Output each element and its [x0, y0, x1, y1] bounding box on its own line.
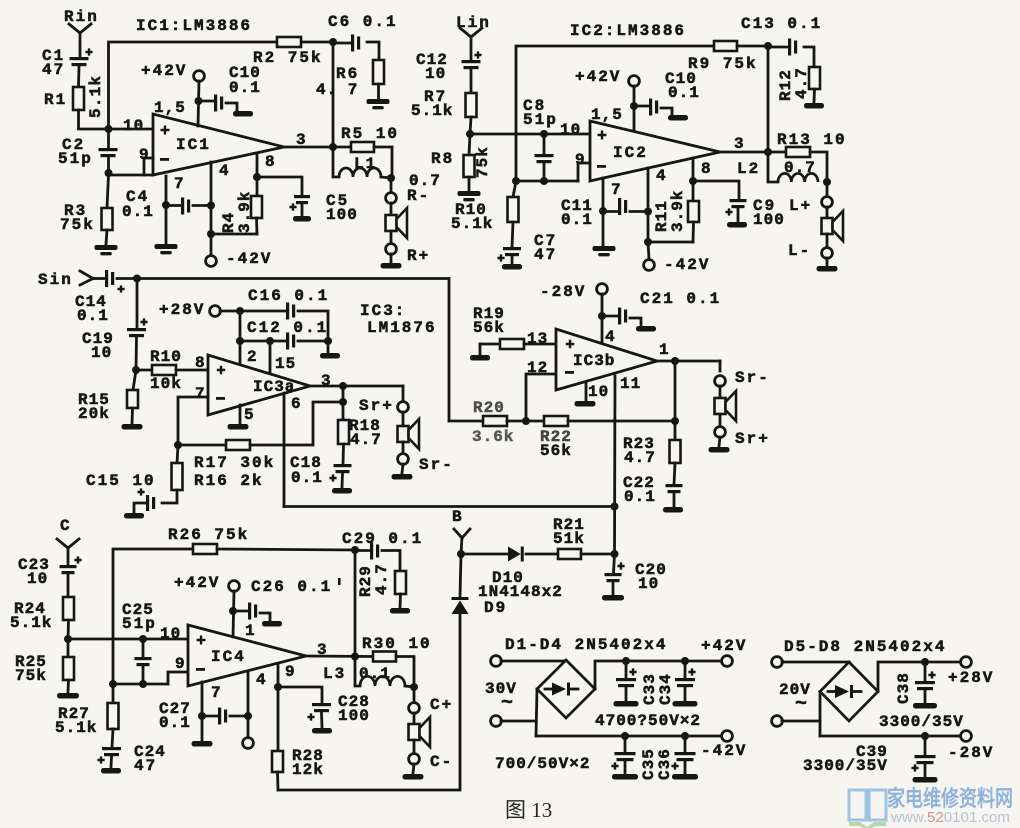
svg-text:C36: C36	[656, 748, 674, 780]
ground C33	[614, 701, 639, 707]
junction C27 right	[244, 712, 252, 720]
junction C11 right	[644, 208, 652, 216]
svg-text:1,5: 1,5	[154, 99, 186, 117]
svg-text:51p: 51p	[523, 111, 558, 129]
svg-text:IC4: IC4	[211, 648, 246, 666]
svg-text:1: 1	[659, 341, 671, 359]
junction C33	[622, 657, 630, 665]
svg-text:R20: R20	[473, 399, 505, 417]
svg-text:C13 0.1: C13 0.1	[741, 15, 822, 33]
wire Sr- to speaker b	[719, 386, 722, 398]
wire R11 bottom row	[648, 241, 693, 244]
capacitor C11	[618, 198, 621, 215]
plus C33	[629, 668, 636, 675]
wire -input row	[109, 174, 154, 177]
terminal IC4 -42V	[243, 738, 254, 749]
capacitor C18 polar	[334, 464, 352, 467]
svg-text:IC3b: IC3b	[573, 352, 615, 370]
wire L3 left leg	[355, 657, 360, 687]
wire C26 ground lead	[260, 613, 270, 620]
wire R19 left lead	[480, 343, 500, 346]
resistor R10 10k	[152, 365, 176, 375]
wire +42V stem to pin1,5	[198, 81, 199, 126]
wire R6 to ground	[377, 84, 380, 98]
resistor R21	[558, 549, 581, 559]
plus C19	[140, 318, 147, 325]
capacitor C15 polar	[146, 495, 149, 511]
wire C23 to R24	[67, 574, 70, 597]
wire R- to speaker	[390, 203, 393, 215]
pin6 vertical to B row	[283, 393, 286, 507]
junction output IC3a	[339, 382, 347, 390]
wire R17 to elbow	[250, 402, 343, 445]
svg-text:5: 5	[244, 406, 256, 424]
junction C25 bottom	[139, 680, 147, 688]
svg-text:4. 7: 4. 7	[316, 81, 358, 99]
wire C8 bottom lead	[543, 163, 546, 181]
capacitor C34 polar	[684, 661, 687, 678]
wire B row	[284, 505, 615, 508]
svg-text:5.1k: 5.1k	[10, 614, 52, 632]
wire C10 IC2 ground lead	[661, 108, 672, 114]
wire R10 to C7	[512, 222, 513, 247]
wire C9 to ground	[737, 208, 740, 221]
capacitor C27	[218, 708, 221, 725]
junction Sin node	[133, 275, 141, 283]
svg-text:75k: 75k	[60, 216, 95, 234]
junction pin8 IC2	[689, 177, 697, 185]
wire R27 to C24	[112, 729, 113, 747]
antenna Lin	[460, 28, 471, 37]
svg-text:IC3:: IC3:	[360, 302, 406, 320]
wire -rail 2	[820, 735, 961, 738]
junction R18 top	[339, 398, 347, 406]
ground C35	[612, 774, 638, 780]
svg-text:47: 47	[134, 757, 157, 775]
svg-text:3: 3	[734, 135, 746, 153]
svg-text:R+: R+	[407, 247, 430, 265]
junction B row right	[611, 503, 619, 511]
wire C11 right lead	[630, 210, 648, 213]
svg-text:R8: R8	[431, 150, 454, 168]
junction C34	[681, 657, 689, 665]
svg-text:-28V: -28V	[540, 283, 586, 301]
wire D10 to R21	[526, 553, 558, 556]
wire bridge right to +rail	[595, 661, 721, 689]
svg-text:4.7: 4.7	[793, 67, 811, 99]
junction node A	[105, 125, 113, 133]
wire C13 left lead	[768, 46, 788, 49]
pin4 vertical IC4	[247, 671, 250, 737]
terminal Sr+ (IC3b)	[715, 427, 726, 438]
wire AC1 bottom	[501, 720, 536, 723]
svg-text:100: 100	[326, 206, 358, 224]
plus C36	[671, 762, 678, 769]
svg-text:8: 8	[265, 153, 277, 171]
capacitor C20 polar	[605, 573, 622, 576]
resistor R26	[193, 544, 217, 554]
ground C12 row	[320, 353, 340, 359]
wire R20 to R22	[507, 420, 544, 423]
wire C10 to ground	[226, 103, 237, 111]
junction output IC4	[351, 653, 359, 661]
plus C20	[617, 562, 624, 569]
svg-text:www.520101.com: www.520101.com	[890, 810, 1010, 826]
svg-text:75k: 75k	[15, 667, 47, 685]
ground C38	[913, 703, 937, 709]
svg-text:R5 10: R5 10	[341, 125, 399, 143]
svg-text:6: 6	[291, 395, 303, 413]
svg-text:C38: C38	[895, 672, 913, 704]
wire speaker to Sr-	[402, 442, 405, 454]
svg-text:5.1k: 5.1k	[451, 215, 493, 233]
junction C38	[921, 658, 929, 666]
ground C20	[602, 595, 624, 601]
wire R3 to ground	[106, 230, 107, 244]
svg-text:0.1: 0.1	[159, 714, 191, 732]
pin9 step wire	[144, 158, 153, 175]
junction pin12 column	[522, 417, 530, 425]
plus sign IC1	[161, 126, 170, 135]
svg-text:C15 10: C15 10	[86, 472, 156, 490]
svg-text:700/50V×2: 700/50V×2	[495, 755, 590, 773]
svg-text:D9: D9	[484, 599, 507, 617]
svg-text:3.6k: 3.6k	[472, 428, 514, 446]
svg-text:4700?50V×2: 4700?50V×2	[595, 712, 701, 730]
speaker L channel	[822, 218, 833, 234]
ground surround b	[709, 447, 730, 453]
wire C12-row	[240, 340, 286, 343]
pin7 stub IC2	[602, 178, 605, 211]
svg-text:L2: L2	[737, 160, 760, 178]
pin4 vertical IC2	[647, 168, 650, 242]
svg-text:C34: C34	[657, 673, 675, 705]
wire C28 to ground	[320, 713, 323, 727]
wire C22 to ground	[673, 494, 676, 506]
svg-text:D5-D8 2N5402x4: D5-D8 2N5402x4	[784, 638, 946, 656]
wire C8 bottom row	[516, 180, 578, 183]
wire IC3a output row	[310, 385, 403, 388]
capacitor C23 polar	[60, 565, 77, 568]
terminal +28V	[210, 306, 221, 317]
svg-text:C+: C+	[430, 696, 453, 714]
wire C24 to ground	[110, 757, 113, 767]
terminal R+	[386, 244, 397, 255]
wire R2 to node C6	[301, 41, 333, 44]
svg-text:3.9k: 3.9k	[236, 191, 254, 233]
op-amp IC2	[590, 121, 720, 181]
svg-text:R9 75k: R9 75k	[688, 55, 758, 73]
svg-text:D1-D4 2N5402x4: D1-D4 2N5402x4	[505, 636, 667, 654]
wire C18 to ground	[341, 473, 344, 487]
op-amp IC4	[188, 625, 306, 686]
svg-text:C29 0.1: C29 0.1	[342, 530, 423, 548]
plus sign IC2	[598, 131, 607, 140]
resistor R8 (Lin)	[464, 155, 475, 177]
wire C12row ground	[327, 341, 330, 352]
wire R12 to ground	[813, 89, 816, 102]
wire output to R23	[674, 361, 677, 440]
svg-text:8: 8	[701, 160, 713, 178]
capacitor C36 polar	[684, 736, 687, 752]
svg-text:~: ~	[795, 693, 809, 716]
svg-text:R17 30k: R17 30k	[194, 454, 275, 472]
svg-text:+28V: +28V	[159, 301, 205, 319]
junction C4 left	[162, 201, 170, 209]
svg-text:1,5: 1,5	[591, 106, 623, 124]
wire L3 to junction	[405, 686, 414, 687]
resistor R25	[63, 657, 74, 680]
wire -42V stem IC1	[210, 234, 213, 255]
wire R30 to corner	[396, 657, 414, 688]
wire bridge2 left leg down	[819, 692, 822, 737]
plus C1	[85, 48, 92, 55]
ground C9	[727, 222, 747, 228]
wire R10 to IC3a pin8	[176, 369, 208, 372]
svg-text:4: 4	[656, 167, 668, 185]
terminal -42V	[722, 731, 733, 742]
junction C27 left	[198, 712, 206, 720]
svg-text:7: 7	[211, 684, 223, 702]
ground C26	[262, 621, 282, 627]
wire R15 chain	[133, 370, 136, 390]
ground R25	[57, 693, 79, 699]
wire C26 row	[233, 610, 248, 613]
ground pin7/C4	[155, 244, 178, 249]
svg-text:L-: L-	[788, 242, 811, 260]
svg-text:10: 10	[638, 575, 659, 593]
terminal AC2 top	[772, 657, 783, 668]
junction IC3a input node	[132, 366, 140, 374]
wire pin2 vertical	[239, 311, 242, 364]
capacitor C21	[618, 308, 621, 325]
wire R16 chain	[177, 445, 178, 463]
junction C35	[621, 732, 629, 740]
terminal -42V IC1	[206, 256, 217, 267]
wire C8 top lead	[543, 134, 546, 154]
resistor R10 5.1k	[508, 197, 519, 222]
wire feedback/R2 row from node A	[109, 42, 278, 129]
plus sign IC3b	[566, 340, 574, 348]
ground R29	[390, 608, 410, 614]
junction pin2	[236, 337, 244, 345]
resistor R1	[73, 87, 84, 110]
pin5 stub IC3a	[239, 405, 242, 423]
wire D9 column upper	[460, 554, 461, 597]
terminal R-	[386, 193, 397, 204]
wire R9 to C13 node	[737, 45, 768, 48]
wire R10(5.1k) chain	[513, 181, 516, 197]
svg-text:8: 8	[195, 354, 207, 372]
junction C29 node	[351, 546, 359, 554]
ground R6	[367, 99, 390, 104]
junction C8 bottom	[540, 177, 548, 185]
resistor R29	[395, 571, 406, 594]
wire IC4 output row	[306, 655, 373, 658]
terminal C+	[409, 703, 420, 714]
junction R17 left	[174, 441, 182, 449]
junction R27 column	[109, 680, 117, 688]
pin8 stub	[256, 153, 259, 177]
svg-text:7: 7	[195, 385, 207, 403]
wire vertical node C6 to output node	[332, 42, 335, 147]
wire Sr+ to speaker	[402, 412, 405, 426]
wire to C+ terminal	[413, 687, 416, 702]
svg-text:10: 10	[560, 121, 581, 139]
input symbol Sin	[80, 271, 93, 279]
svg-text:4.7: 4.7	[624, 449, 656, 467]
svg-text:100: 100	[338, 707, 370, 725]
pin4 vertical to -42V	[210, 162, 213, 234]
wire +42V IC4 stem	[233, 591, 234, 637]
ground R19	[470, 355, 490, 361]
plus C9	[725, 208, 732, 215]
svg-text:12k: 12k	[292, 761, 324, 779]
ground R8	[458, 191, 481, 196]
wire speaker to L-	[826, 234, 829, 248]
speaker surround b	[715, 398, 726, 414]
svg-text:1: 1	[245, 622, 257, 640]
junction L3/R30	[410, 683, 418, 691]
terminal +42V	[722, 656, 733, 667]
wire C11 left lead	[603, 210, 618, 213]
wire speaker to Sr+ b	[719, 414, 722, 427]
wire Sr- to ground	[402, 464, 403, 473]
wire C16 right corner	[298, 311, 328, 341]
svg-text:5.1k: 5.1k	[411, 102, 453, 120]
wire R1 to node A	[79, 110, 109, 129]
junction pin9 IC4	[274, 683, 282, 691]
svg-text:IC1: IC1	[176, 136, 211, 154]
junction C26	[229, 607, 237, 615]
bridge rectifier D5-D8	[820, 662, 878, 721]
resistor R27	[108, 703, 119, 729]
capacitor C1	[70, 57, 89, 60]
junction output IC3b	[671, 357, 679, 365]
ground C28	[312, 728, 332, 734]
wire to R- terminal	[390, 178, 393, 193]
wire C1 to R1	[77, 66, 80, 87]
wire R27 chain	[112, 684, 115, 703]
svg-text:3.9k: 3.9k	[669, 190, 687, 232]
resistor R7	[466, 93, 477, 117]
capacitor C28 polar	[312, 703, 331, 706]
wire R21 to C20 node	[581, 553, 615, 556]
svg-text:9: 9	[285, 663, 297, 681]
wire pin8 to C5	[257, 177, 302, 194]
diode D10	[508, 547, 521, 562]
svg-text:C16 0.1: C16 0.1	[248, 287, 329, 305]
wire IC2 output row	[720, 151, 786, 154]
resistor R13	[786, 147, 810, 157]
svg-text:0.1: 0.1	[668, 84, 700, 102]
svg-text:R2 75k: R2 75k	[253, 49, 323, 67]
wire R7 to node	[470, 117, 471, 134]
wire bridge2 right to +rail	[878, 662, 961, 692]
junction -42V row IC2	[644, 238, 652, 246]
watermark 家电维修资料网 logo	[849, 790, 886, 820]
resistor R2	[277, 37, 301, 47]
wire C21 ground lead	[630, 318, 641, 325]
capacitor C38 polar	[924, 662, 927, 681]
junction C20 node	[611, 550, 619, 558]
svg-text:12: 12	[527, 359, 548, 377]
terminal +42V IC4	[229, 581, 240, 592]
resistor R28	[272, 751, 283, 772]
wire L- to ground	[826, 258, 829, 266]
svg-text:B: B	[452, 508, 464, 526]
ground C7	[502, 264, 522, 270]
svg-text:Sr-: Sr-	[419, 456, 454, 474]
svg-text:0.1: 0.1	[77, 307, 109, 325]
junction L1/R5	[387, 174, 395, 182]
wire R8 chain	[469, 134, 470, 155]
svg-text:Sr+: Sr+	[359, 397, 394, 415]
junction node C6	[329, 38, 337, 46]
svg-text:C26 0.1: C26 0.1	[251, 578, 332, 596]
wire C13 node to output	[767, 46, 770, 152]
resistor R6	[373, 60, 384, 84]
junction pin15	[266, 337, 274, 345]
svg-text:15: 15	[275, 355, 296, 373]
junction C12 row right	[324, 337, 332, 345]
terminal -28V	[961, 731, 972, 742]
svg-text:R1: R1	[44, 91, 67, 109]
capacitor C26	[248, 603, 251, 620]
wire node A to IC1 +input pin 10	[109, 128, 154, 131]
resistor R30	[373, 652, 396, 662]
wire C6 right to R6 top	[367, 42, 379, 60]
resistor R18	[338, 420, 349, 444]
junction C11 left	[599, 207, 607, 215]
resistor R16	[172, 463, 183, 490]
svg-text:2: 2	[247, 348, 259, 366]
antenna Rin	[69, 24, 80, 33]
wire to L+ terminal	[826, 182, 829, 197]
ground C speaker	[403, 774, 424, 780]
wire R25 chain	[67, 639, 70, 657]
svg-text:10: 10	[91, 344, 112, 362]
wire L+ to speaker	[826, 207, 829, 218]
capacitor C24 polar	[102, 747, 121, 750]
wire C29 node lead	[355, 549, 370, 552]
bridge diode symbol	[545, 688, 552, 691]
ground C24	[101, 768, 121, 774]
svg-text:R-: R-	[407, 187, 430, 205]
bridge diode symbol 2	[828, 690, 835, 693]
wire R24 to node	[67, 620, 70, 639]
ground C39	[913, 777, 938, 783]
ground C22	[663, 507, 683, 513]
resistor R22	[544, 416, 568, 426]
wire C2 to lower node B	[107, 158, 110, 175]
plus C28	[307, 713, 314, 720]
wire R16 to C15	[162, 490, 177, 503]
wire pin15 vertical	[269, 341, 272, 372]
svg-text:+42V: +42V	[174, 574, 220, 592]
svg-text:R30 10: R30 10	[362, 635, 432, 653]
wire C29 to R29	[382, 551, 400, 572]
svg-text:51p: 51p	[122, 615, 157, 633]
capacitor C39 polar	[924, 736, 927, 755]
svg-text:20k: 20k	[78, 405, 110, 423]
terminal -28V	[597, 284, 608, 295]
junction -42V row	[207, 230, 215, 238]
svg-text:13: 13	[527, 330, 548, 348]
capacitor C10 (IC1)	[214, 95, 217, 112]
wire IC4 bottom row	[113, 683, 168, 686]
wire C15 to ground	[134, 503, 146, 512]
